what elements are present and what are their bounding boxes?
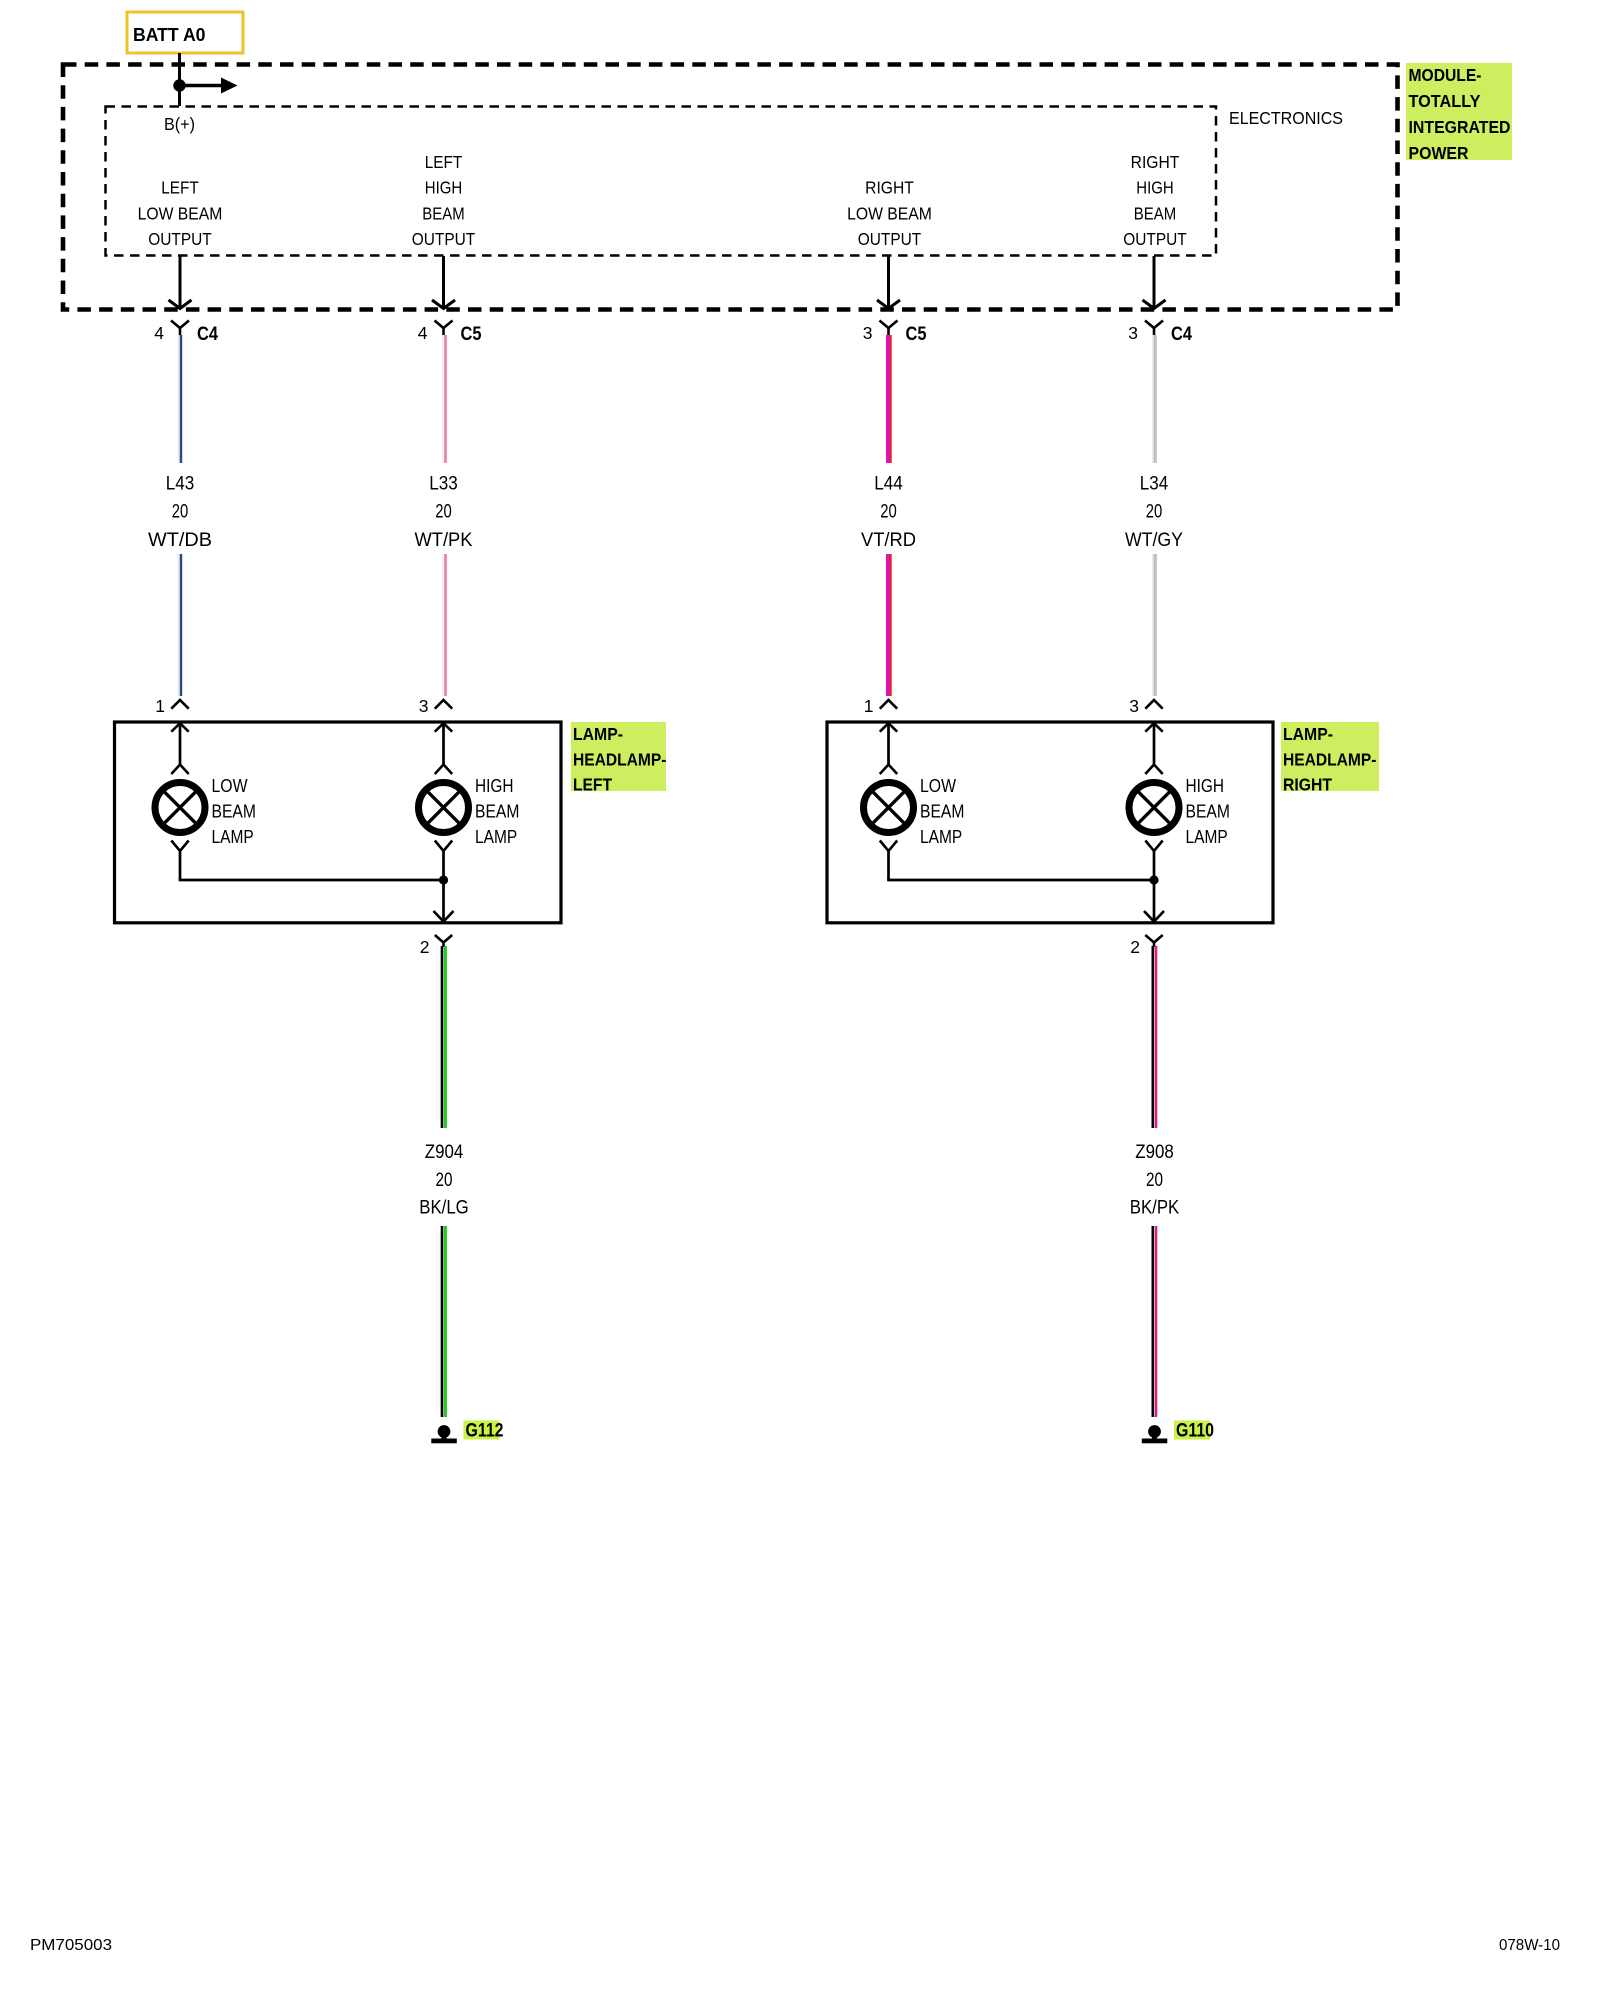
svg-text:LEFT: LEFT [573,775,612,795]
svg-text:POWER: POWER [1409,143,1469,163]
svg-text:BEAM: BEAM [1186,802,1230,822]
svg-text:G110: G110 [1176,1421,1214,1442]
svg-text:LOW BEAM: LOW BEAM [847,203,932,223]
svg-text:L44: L44 [874,474,903,495]
svg-text:1: 1 [864,696,874,716]
svg-text:ELECTRONICS: ELECTRONICS [1229,108,1343,128]
svg-text:LEFT: LEFT [161,178,199,198]
svg-text:20: 20 [1146,1170,1163,1191]
svg-text:OUTPUT: OUTPUT [1123,229,1187,249]
svg-text:2: 2 [420,937,430,957]
svg-text:HIGH: HIGH [1136,178,1174,198]
svg-text:1: 1 [155,696,165,716]
svg-text:3: 3 [419,696,429,716]
svg-text:RIGHT: RIGHT [1131,152,1180,172]
svg-text:WT/DB: WT/DB [148,530,212,551]
svg-text:LEFT: LEFT [425,152,463,172]
svg-text:C4: C4 [1171,324,1192,345]
svg-text:MODULE-: MODULE- [1409,65,1482,85]
svg-text:LAMP-: LAMP- [573,724,623,744]
svg-text:HEADLAMP-: HEADLAMP- [1283,749,1377,769]
svg-text:OUTPUT: OUTPUT [412,229,476,249]
svg-text:3: 3 [863,323,873,343]
svg-text:Z908: Z908 [1135,1142,1174,1163]
svg-text:3: 3 [1128,323,1138,343]
svg-text:L43: L43 [166,474,195,495]
svg-text:BK/LG: BK/LG [419,1198,469,1219]
svg-text:RIGHT: RIGHT [1283,775,1332,795]
svg-text:3: 3 [1129,696,1139,716]
svg-text:RIGHT: RIGHT [865,178,914,198]
svg-text:OUTPUT: OUTPUT [858,229,922,249]
svg-text:C5: C5 [461,324,482,345]
svg-text:C5: C5 [906,324,927,345]
svg-text:L34: L34 [1140,474,1169,495]
svg-text:L33: L33 [429,474,458,495]
svg-text:OUTPUT: OUTPUT [148,229,212,249]
svg-text:LAMP: LAMP [1186,827,1228,847]
svg-text:HIGH: HIGH [1186,776,1225,796]
svg-text:HIGH: HIGH [475,776,514,796]
svg-text:BK/PK: BK/PK [1130,1198,1180,1219]
svg-text:PM705003: PM705003 [30,1937,112,1954]
svg-text:4: 4 [418,323,428,343]
svg-text:4: 4 [154,323,164,343]
svg-text:LAMP: LAMP [920,827,962,847]
svg-text:20: 20 [880,502,897,523]
svg-text:LOW: LOW [920,776,956,796]
svg-text:INTEGRATED: INTEGRATED [1409,117,1511,137]
svg-text:VT/RD: VT/RD [861,530,916,551]
svg-text:BEAM: BEAM [1134,203,1176,223]
svg-text:WT/GY: WT/GY [1125,530,1183,551]
svg-text:2: 2 [1130,937,1140,957]
svg-text:BEAM: BEAM [422,203,464,223]
svg-text:BEAM: BEAM [475,802,519,822]
svg-text:LAMP-: LAMP- [1283,724,1333,744]
svg-text:20: 20 [435,502,452,523]
svg-text:LOW: LOW [212,776,248,796]
svg-text:LAMP: LAMP [475,827,517,847]
svg-text:078W-10: 078W-10 [1499,1937,1560,1954]
svg-text:LOW BEAM: LOW BEAM [138,203,223,223]
svg-text:Z904: Z904 [425,1142,464,1163]
svg-text:20: 20 [436,1170,453,1191]
svg-text:WT/PK: WT/PK [415,530,473,551]
svg-text:G112: G112 [466,1421,504,1442]
svg-text:BEAM: BEAM [920,802,964,822]
svg-text:HIGH: HIGH [425,178,463,198]
svg-text:C4: C4 [197,324,218,345]
svg-text:LAMP: LAMP [212,827,254,847]
svg-text:20: 20 [1146,502,1163,523]
svg-text:B(+): B(+) [164,114,195,134]
svg-text:HEADLAMP-: HEADLAMP- [573,749,667,769]
svg-text:BATT A0: BATT A0 [133,25,206,45]
svg-text:TOTALLY: TOTALLY [1409,91,1481,111]
svg-text:BEAM: BEAM [212,802,256,822]
svg-text:20: 20 [172,502,189,523]
